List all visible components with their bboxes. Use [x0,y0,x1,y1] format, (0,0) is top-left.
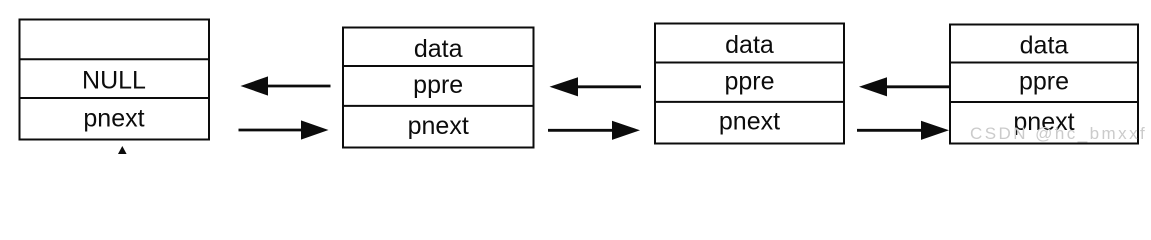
svg-text:NULL: NULL [82,67,146,95]
up arrowhead pointing at node N1 (cut off at bottom) [118,146,127,154]
svg-text:pnext: pnext [83,105,144,133]
svg-text:data: data [725,31,774,59]
wire: arrow pnext N3 to N4 (right-pointing) [857,121,949,140]
svg-text:ppre: ppre [413,71,463,99]
wire: arrow pnext N2 to N3 (right-pointing) [548,121,640,140]
svg-text:data: data [1020,32,1069,60]
wire: arrow ppre N2 to N1 (left-pointing) [241,76,331,95]
wire: arrow ppre N4 to N3 (left-pointing) [859,77,950,96]
svg-text:data: data [414,35,463,63]
node N1 (head) box [20,20,210,140]
svg-text:CSDN @hc_bmxxf: CSDN @hc_bmxxf [970,124,1147,143]
svg-text:ppre: ppre [1019,68,1069,96]
node N2 box [343,28,534,148]
svg-text:pnext: pnext [408,112,469,140]
node N4 box [950,25,1138,144]
node N3 box [655,24,844,144]
svg-text:ppre: ppre [724,67,774,95]
wire: arrow ppre N3 to N2 (left-pointing) [550,77,642,96]
svg-text:pnext: pnext [719,108,780,136]
wire: arrow pnext N1 to N2 (right-pointing) [239,120,329,139]
